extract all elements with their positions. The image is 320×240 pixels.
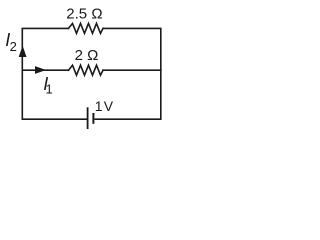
wire middle-right segment [103,69,161,71]
wire top-right segment [103,28,161,70]
current arrow I1 (right, on middle wire) [35,66,46,74]
resistor R1 2.5 ohm zigzag [69,23,104,33]
svg-text:1: 1 [46,81,53,96]
battery V1 long plate [87,107,89,129]
current arrow I2 (up, on left wire) [19,46,27,58]
battery V1 short plate [92,113,94,124]
wire middle-left segment [22,69,68,71]
resistor R2 2 ohm zigzag [69,65,104,75]
svg-text:2.5 Ω: 2.5 Ω [66,6,102,23]
svg-text:1V: 1V [95,98,114,114]
svg-text:2: 2 [10,39,17,54]
wire right-lower segment [95,70,161,119]
svg-text:2 Ω: 2 Ω [75,47,99,64]
wire top-left segment [22,28,68,70]
wire bottom-left segment [22,70,87,119]
